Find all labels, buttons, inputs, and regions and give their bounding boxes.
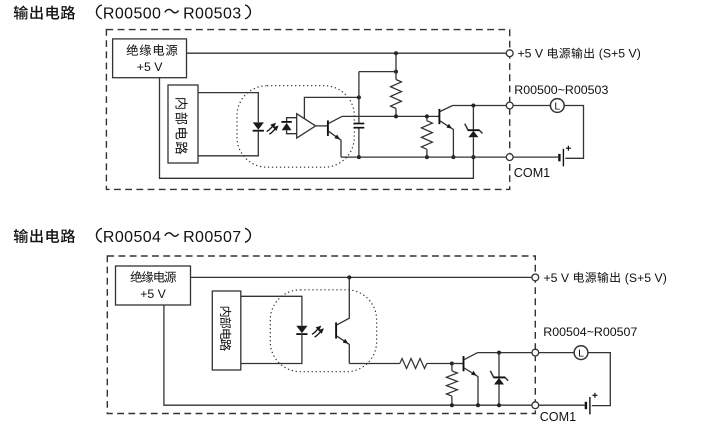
svg-text:COM1: COM1 — [540, 410, 576, 424]
node: Q2 emitter / common — [451, 155, 455, 159]
terminal S+5V (circuit 1) — [506, 50, 513, 57]
svg-text:R00500: R00500 — [103, 5, 161, 22]
svg-text:L: L — [554, 101, 560, 113]
resistor R4 (base-emitter, circuit 2) — [446, 364, 457, 406]
svg-text:COM1: COM1 — [514, 166, 550, 180]
wire: common rail (circuit 1) — [341, 156, 506, 158]
wire: +5V top rail — [187, 52, 507, 54]
resistor R1 (pull-up) — [391, 53, 402, 116]
wire: amplifier supply — [304, 97, 359, 119]
wire: internal circuit to LED anode (circuit 2) — [241, 296, 302, 325]
terminal COM1 (circuit 1) — [506, 154, 513, 161]
svg-text:+5 V: +5 V — [140, 287, 166, 301]
wire: R3 to junction — [427, 363, 452, 365]
battery BT1 — [559, 146, 571, 167]
node: R4 bottom — [450, 403, 454, 407]
wire: Q2 collector to output terminal — [453, 105, 507, 107]
label: +5 V 电源输出 (S+5 V) — [518, 47, 641, 61]
LED D1 (optocoupler emitter) — [253, 122, 264, 130]
transistor Q1 (opto IC output) — [316, 116, 342, 157]
zener diode D3 (circuit 1) — [465, 106, 483, 158]
wire: COM1 terminal to battery - (circuit 2) — [539, 404, 585, 406]
svg-text:+5 V: +5 V — [137, 60, 163, 74]
wire: Q1 collector node to Q2 base — [342, 115, 439, 117]
svg-text:(S+5 V): (S+5 V) — [625, 271, 667, 285]
svg-text:R00504: R00504 — [103, 229, 161, 246]
node: C1 to common — [357, 155, 361, 159]
terminal output R00500-R00503 — [506, 102, 513, 109]
svg-text:+5 V: +5 V — [544, 271, 570, 285]
optocoupler PC2 outline (dotted) — [270, 290, 376, 372]
node: D6 anode / COM1 rail — [497, 403, 501, 407]
photodiode D2 (optocoupler detector) — [281, 118, 296, 134]
wire: LED cathode return (circuit 2) — [241, 334, 302, 363]
node: collector / zener D6 — [497, 351, 501, 355]
node: R1 / base wire — [394, 114, 398, 118]
light arrows (photon symbol, circuit 1) — [267, 123, 279, 134]
battery BT2 — [586, 393, 598, 415]
svg-text:R00507: R00507 — [183, 229, 241, 246]
terminal COM1 (circuit 2) — [532, 402, 539, 409]
label: +5 V 电源输出 (S+5 V) circuit 2 — [544, 271, 667, 285]
wire: LED cathode to internal circuit — [198, 131, 258, 156]
wire: junction to Q4 base — [452, 363, 464, 365]
wire: +5V top rail (circuit 2) — [191, 276, 532, 278]
wire: COM1 to battery - — [513, 156, 558, 158]
wire: supply branch to C1 — [359, 71, 396, 73]
svg-text:L: L — [578, 348, 584, 360]
terminal output R00504-R00507 — [532, 349, 539, 356]
internal circuit box IC2: 内部电路 — [212, 291, 241, 370]
optocoupler PC1 outline (dotted) — [237, 86, 354, 168]
node: D3 anode / common — [471, 155, 475, 159]
node: branch / R1 line — [394, 70, 398, 74]
svg-text:R00503: R00503 — [183, 5, 241, 22]
load L1 (lamp symbol) — [550, 99, 564, 113]
node: top rail / Q3 collector — [347, 275, 351, 279]
dashed enclosure (output circuit 1) — [106, 30, 509, 190]
wire: Q4 collector to output terminal — [478, 352, 532, 354]
wire: load return to battery + — [564, 106, 583, 159]
title: 输出电路 (R00500-R00503) — [14, 5, 251, 23]
wire: output terminal to load (circuit 2) — [539, 352, 574, 354]
LED D5 (optocoupler emitter, circuit 2) — [296, 326, 307, 334]
node: R2 bottom — [425, 155, 429, 159]
svg-text:R00504~R00507: R00504~R00507 — [543, 325, 637, 339]
wire: load return to battery + (circuit 2) — [588, 353, 610, 406]
node: junction top rail / R1 — [394, 51, 398, 55]
title: 输出电路 (R00504-R00507) — [14, 228, 251, 246]
svg-text:R00500~R00503: R00500~R00503 — [514, 83, 608, 97]
capacitor C1 — [354, 72, 365, 158]
node: amp supply / C1 — [357, 95, 361, 99]
wire: Q3 emitter to R3 — [349, 363, 400, 365]
node: Q4 emitter / COM1 rail — [476, 403, 480, 407]
wire: power supply return (left rail to common) — [160, 78, 474, 179]
phototransistor Q3 — [336, 277, 349, 363]
isolated power supply box PS1: 绝缘电源 +5V — [113, 39, 187, 78]
transistor Q2 (output NPN, circuit 1) — [439, 106, 453, 158]
node: R2 top — [425, 114, 429, 118]
resistor R3 (series) — [400, 359, 427, 369]
isolated power supply box PS2: 绝缘电源 +5V — [116, 266, 191, 305]
load L2 (lamp symbol) — [574, 346, 588, 360]
node: collector / zener D3 — [471, 104, 475, 108]
node: R3 / R4 / Q4 base — [450, 362, 454, 366]
zener diode D6 (circuit 2) — [490, 353, 508, 406]
internal circuit box IC1: 内部电路 — [168, 85, 198, 163]
svg-text:+5 V: +5 V — [518, 47, 544, 61]
wire: output terminal to load — [513, 105, 550, 107]
dashed enclosure (output circuit 2) — [107, 256, 535, 414]
wire: supply return / COM1 rail (circuit 2) — [164, 305, 532, 405]
wire: internal circuit to LED anode — [198, 93, 258, 123]
transistor Q4 (output NPN, circuit 2) — [464, 353, 479, 406]
terminal S+5V (circuit 2) — [532, 274, 539, 281]
resistor R2 (base-emitter) — [421, 116, 432, 157]
amplifier U1 (opto IC) — [297, 114, 316, 138]
svg-text:(S+5 V): (S+5 V) — [599, 47, 641, 61]
light arrows (photon symbol, circuit 2) — [312, 326, 324, 337]
